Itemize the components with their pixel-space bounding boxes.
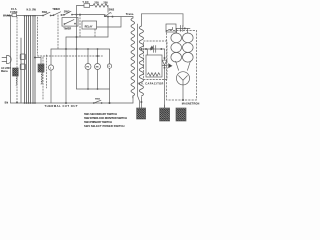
HV capacitor box	[146, 55, 162, 77]
wire diode ground stem	[164, 105, 166, 108]
wire vertical v33	[32, 16, 34, 103]
svg-text:SW1: SW1	[42, 10, 48, 14]
wire fuse to SW1	[17, 15, 43, 17]
filament winding left	[171, 33, 182, 62]
node junction	[97, 88, 98, 89]
stirrer motor M3	[107, 64, 111, 68]
wire vertical x66 lower	[65, 49, 67, 103]
wire lamp stem bottom	[50, 70, 52, 103]
wire relay bypass loop	[97, 17, 121, 27]
node junction dash	[79, 14, 80, 15]
coil below left element	[16, 76, 17, 85]
antenna arrow	[169, 64, 172, 68]
node junction	[87, 48, 88, 49]
switch inside timer box	[64, 20, 76, 25]
node junction riser	[76, 14, 77, 15]
thermostat box magnetron	[166, 24, 176, 32]
ground chassis G2	[160, 108, 170, 121]
heater element hatched left	[13, 68, 19, 76]
transformer secondary winding W2	[139, 26, 143, 96]
bleed resistor inside box	[148, 73, 160, 76]
svg-text:Blk: Blk	[5, 102, 9, 104]
wire SW2 to transformer	[105, 16, 133, 18]
dashed door line v17	[16, 17, 17, 103]
resistor R1 250	[93, 4, 101, 7]
svg-text:Trans.: Trans.	[126, 12, 134, 16]
switch SW4 bottom	[93, 100, 102, 103]
filament winding right	[183, 33, 194, 62]
node junction	[150, 48, 151, 49]
transformer core line	[138, 24, 140, 108]
svg-text:SW4 SELECT POWER SWITCH: SW4 SELECT POWER SWITCH	[84, 124, 125, 128]
wire vertical v30	[30, 16, 32, 103]
wire vertical v35	[34, 16, 36, 103]
dashed door line v43	[42, 57, 44, 100]
capacitor feedthrough plates	[181, 25, 186, 31]
svg-text:Mains: Mains	[1, 70, 8, 73]
node junction	[97, 55, 98, 56]
svg-text:N.O. SW: N.O. SW	[27, 9, 37, 12]
wire vertical v28	[28, 16, 30, 103]
node junction	[65, 102, 66, 103]
turntable motor M1	[85, 64, 91, 70]
capacitor HV plates	[151, 46, 156, 53]
dashed door line v58	[57, 15, 59, 49]
dashed enclosure magnetron	[167, 30, 197, 100]
node bundle bottom dots	[24, 102, 36, 103]
node junction	[145, 48, 146, 49]
svg-text:H.V. CAPACITOR: H.V. CAPACITOR	[138, 82, 164, 85]
node junction	[112, 16, 113, 17]
svg-text:MAGNETRON: MAGNETRON	[182, 102, 200, 105]
door switch box lower	[20, 64, 25, 70]
wire	[97, 70, 99, 90]
ground chassis G3	[176, 108, 186, 121]
svg-text:MAINS: MAINS	[3, 15, 11, 18]
plug AC input	[2, 55, 11, 63]
thermostat on bypass	[84, 4, 90, 8]
node junction	[141, 48, 142, 49]
svg-text:SW4: SW4	[95, 98, 101, 101]
wire HT drop right	[182, 14, 184, 27]
svg-text:SW2 INTERLOCK MONITOR SWITCH: SW2 INTERLOCK MONITOR SWITCH	[84, 116, 127, 120]
wire	[87, 70, 89, 90]
svg-text:SW3 PRIMARY SWITCH: SW3 PRIMARY SWITCH	[84, 120, 112, 124]
wire W2 bottom to ground	[141, 97, 142, 108]
fuse F1 15A	[12, 14, 17, 17]
wire vertical x76	[76, 15, 78, 89]
wire fan motor stem	[97, 49, 99, 64]
svg-text:TIMER: TIMER	[52, 8, 60, 11]
wire secondary top to HT loop	[141, 14, 183, 26]
door switch box upper	[20, 54, 25, 60]
timer motor box	[62, 18, 78, 27]
node junction	[97, 48, 98, 49]
svg-text:TIMER: TIMER	[63, 28, 71, 31]
dashed door line v46	[46, 55, 48, 88]
oven lamp L1	[48, 65, 53, 70]
wire vertical v21	[20, 38, 22, 103]
wire bus y89	[77, 88, 110, 90]
node junction	[65, 48, 66, 49]
wire bus y37	[66, 36, 108, 38]
wire lamp stem top	[50, 49, 52, 65]
svg-text:SW3: SW3	[64, 10, 70, 14]
wire left bus	[10, 16, 12, 104]
node junction	[76, 36, 77, 37]
thermostat contact mark	[169, 27, 173, 29]
wire main to SW2	[72, 14, 105, 16]
node junction	[76, 48, 77, 49]
svg-text:SW1 SECONDARY SWITCH: SW1 SECONDARY SWITCH	[84, 112, 117, 116]
wire magnetron cathode	[182, 85, 184, 100]
node junction	[109, 102, 110, 103]
relay box RL1	[82, 21, 97, 29]
wire vertical v26	[26, 16, 28, 103]
svg-text:250: 250	[94, 0, 99, 4]
switch timer contact	[53, 12, 62, 16]
dashed relay line v80	[79, 15, 81, 37]
switch SW3	[63, 11, 72, 15]
switch SW2	[105, 13, 111, 17]
svg-text:RELAY: RELAY	[85, 25, 93, 28]
transformer primary winding W1	[131, 18, 135, 98]
wire HV bus	[141, 48, 164, 50]
wire	[90, 5, 93, 7]
svg-text:L: L	[50, 68, 52, 70]
wire bypass end	[107, 6, 109, 13]
motor element hatched	[38, 64, 44, 72]
wire stub to motor element	[35, 58, 41, 65]
magnetron neck	[176, 61, 191, 70]
node junction SW2 pivot	[104, 15, 105, 16]
coil below motor element	[41, 72, 42, 84]
wire bottom bus	[11, 102, 134, 104]
diode D1	[162, 49, 167, 108]
svg-text:S: S	[109, 66, 111, 68]
fan motor M2	[95, 64, 101, 70]
node junction	[161, 48, 162, 49]
wire connector x66	[65, 37, 67, 49]
svg-text:FUSE: FUSE	[10, 10, 17, 14]
svg-text:SW2: SW2	[109, 7, 115, 11]
svg-text:200: 200	[103, 0, 108, 4]
wire transformer primary lead	[132, 17, 134, 18]
svg-text:T. CO: T. CO	[82, 1, 88, 4]
dashed door line v37	[37, 17, 39, 55]
wire bus to W1 bottom	[132, 96, 134, 103]
wire mains input top	[7, 15, 12, 17]
ground chassis G1	[137, 108, 146, 119]
dashed enclosure HV capacitor	[144, 41, 167, 80]
switch SW1	[42, 12, 51, 16]
wire turntable motor stem	[87, 49, 89, 64]
svg-text:MS: MS	[96, 67, 100, 69]
svg-text:TM: TM	[86, 67, 89, 69]
wire vertical x108	[107, 17, 109, 37]
svg-text:THERMAL CUT OUT: THERMAL CUT OUT	[45, 104, 78, 108]
magnetron tube V1	[176, 72, 189, 85]
node junction	[182, 99, 183, 100]
wire riser to bypass	[77, 6, 85, 15]
wire	[61, 14, 64, 16]
wire filament stems	[177, 28, 188, 33]
wire bus y49	[51, 48, 110, 50]
wire filament feed	[176, 27, 190, 29]
wire vertical v24	[24, 16, 26, 103]
wire stirrer stem	[109, 49, 111, 64]
wire	[109, 68, 111, 103]
dashed relay line v95	[94, 29, 96, 37]
node junction	[34, 57, 35, 58]
wire cap box lead	[146, 49, 148, 55]
node bundle top dots	[24, 14, 36, 17]
dashed door line horizontal	[38, 55, 103, 57]
node junction	[87, 88, 88, 89]
resistor R2 200	[101, 4, 108, 7]
wire	[51, 15, 54, 17]
